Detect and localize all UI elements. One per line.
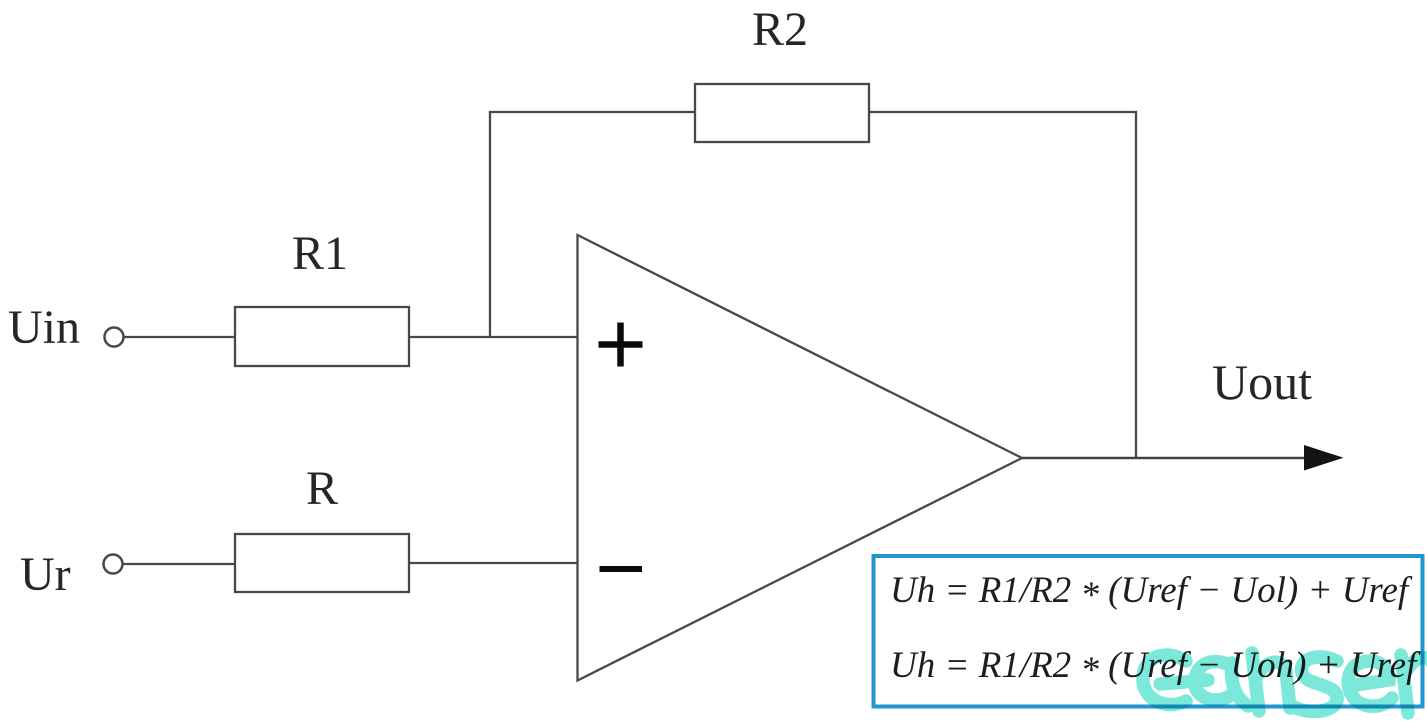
wire top right horizontal bbox=[869, 111, 1137, 113]
watermark Ganser bbox=[1143, 653, 1427, 713]
wire output bbox=[1022, 457, 1306, 460]
svg-text:R1: R1 bbox=[292, 227, 348, 280]
node Ur terminal bbox=[104, 555, 123, 574]
label Ur bbox=[20, 548, 71, 601]
wire top left horizontal bbox=[489, 111, 695, 113]
op-amp minus input symbol bbox=[600, 566, 643, 572]
wire R to inverting input bbox=[409, 562, 577, 564]
svg-text:Uh = R1/R2 * (Uref − Uol) + Ur: Uh = R1/R2 * (Uref − Uol) + Uref bbox=[890, 570, 1413, 616]
label R2 value bbox=[752, 3, 808, 56]
label Uout bbox=[1212, 354, 1312, 410]
resistor R1 bbox=[235, 307, 409, 366]
wire feedback right vertical bbox=[1135, 111, 1137, 458]
label Uin bbox=[8, 301, 80, 354]
svg-text:Uout: Uout bbox=[1212, 354, 1312, 410]
formula line 1 bbox=[890, 570, 1413, 616]
wire R1 to noninverting input bbox=[409, 336, 577, 338]
formula line 2 bbox=[890, 645, 1421, 691]
node Uin terminal bbox=[105, 328, 124, 347]
label R1 value bbox=[292, 227, 348, 280]
wire feedback left vertical bbox=[489, 112, 491, 337]
svg-text:R2: R2 bbox=[752, 3, 808, 56]
wire Uin to R1 bbox=[124, 336, 235, 338]
resistor R2 bbox=[695, 84, 869, 142]
op-amp U1 bbox=[578, 235, 1023, 681]
svg-text:Uin: Uin bbox=[8, 301, 80, 354]
op-amp plus input symbol bbox=[599, 323, 643, 367]
output arrowhead bbox=[1304, 445, 1344, 471]
svg-text:Ur: Ur bbox=[20, 548, 71, 601]
wire Ur to R bbox=[123, 563, 235, 565]
svg-text:R: R bbox=[306, 462, 338, 515]
label R value bbox=[306, 462, 338, 515]
resistor R bbox=[235, 534, 409, 592]
formula box bbox=[874, 556, 1423, 707]
